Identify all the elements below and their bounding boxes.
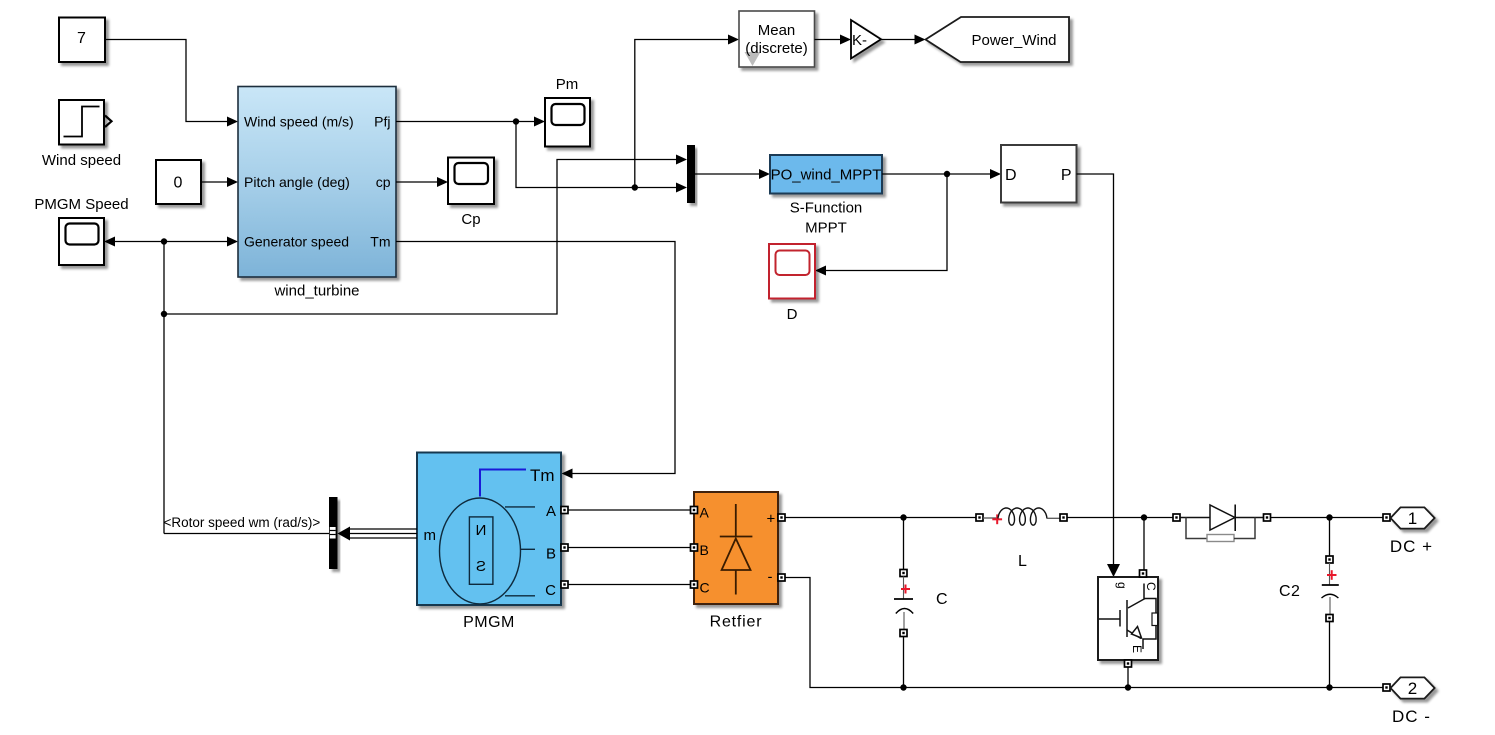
svg-text:Power_Wind: Power_Wind	[971, 32, 1056, 49]
wire 0 to Pitch angle input	[201, 181, 228, 183]
svg-text:Mean: Mean	[758, 22, 796, 39]
svg-text:Cp: Cp	[461, 211, 480, 228]
svg-text:-: -	[768, 569, 773, 586]
svg-text:C: C	[1144, 582, 1158, 591]
rectifier Retfier	[694, 492, 778, 604]
svg-text:S-Function: S-Function	[790, 200, 863, 217]
outport 1 DC+	[1391, 507, 1435, 528]
svg-text:C: C	[700, 580, 710, 596]
IGBT block	[1098, 577, 1158, 660]
port square DC+	[1383, 514, 1390, 521]
scope D (red)	[769, 244, 815, 299]
junction node IGBT collector	[1141, 514, 1147, 520]
diode D1	[1173, 514, 1180, 521]
svg-text:PMGM: PMGM	[463, 614, 515, 631]
svg-text:7: 7	[77, 30, 86, 47]
svg-text:+: +	[767, 511, 776, 528]
measurement bus (triple line)	[349, 529, 417, 538]
constant block 0	[156, 160, 201, 204]
scope Cp	[448, 158, 494, 205]
svg-text:PMGM Speed: PMGM Speed	[34, 196, 128, 213]
wire mux to S-Function	[695, 173, 760, 175]
wire rotor speed to feedback	[164, 533, 329, 535]
wire wm to Generator speed input	[164, 241, 228, 243]
svg-text:N: N	[476, 522, 487, 539]
outport 2 DC-	[1391, 677, 1435, 698]
svg-text:K-: K-	[852, 32, 867, 49]
Tm mechanical trace (blue)	[480, 470, 526, 497]
stator stubs	[505, 506, 535, 508]
junction Pfj node	[513, 118, 519, 124]
svg-text:C2: C2	[1279, 583, 1300, 600]
svg-text:PO_wind_MPPT: PO_wind_MPPT	[771, 167, 882, 184]
svg-text:g: g	[1115, 582, 1129, 589]
wire Mean to gain	[815, 39, 841, 41]
svg-text:MPPT: MPPT	[805, 220, 847, 237]
junction node C top	[900, 514, 906, 520]
svg-text:Pitch angle (deg): Pitch angle (deg)	[244, 174, 350, 190]
svg-text:D: D	[787, 306, 798, 323]
outport Power_Wind	[926, 17, 1070, 62]
svg-text:Wind speed (m/s): Wind speed (m/s)	[244, 114, 354, 130]
capacitor C2	[1329, 518, 1331, 557]
gain K-	[851, 20, 881, 59]
wire Tm to PMGM	[396, 242, 675, 474]
wire cp to Cp scope	[396, 181, 438, 183]
S-Function PO_wind_MPPT	[770, 155, 882, 194]
svg-text:(discrete): (discrete)	[745, 40, 808, 57]
port square DC-	[1383, 684, 1390, 691]
svg-text:2: 2	[1408, 679, 1417, 698]
svg-text:1: 1	[1408, 509, 1417, 528]
snubber RC	[1186, 518, 1207, 539]
wire 7 to Wind speed input	[105, 40, 228, 122]
wire S-Function to subsystem D	[882, 173, 991, 175]
svg-text:B: B	[700, 542, 709, 558]
svg-text:<Rotor speed wm (rad/s)>: <Rotor speed wm (rad/s)>	[164, 515, 321, 530]
port square PMGM B	[561, 544, 568, 551]
wire wm to mux input 1	[164, 160, 677, 315]
junction node C2 top	[1326, 514, 1332, 520]
svg-text:Pm: Pm	[556, 76, 579, 93]
wire phase B	[568, 547, 690, 549]
port square diode out	[1264, 514, 1271, 521]
sample-time icon	[745, 52, 761, 66]
DC+ rail segment 3	[1267, 517, 1383, 519]
wire Pfj to Pm scope	[396, 121, 535, 123]
junction wm branch to mux	[161, 311, 167, 317]
inductor L	[976, 514, 983, 521]
junction node C2 bottom	[1326, 684, 1332, 690]
svg-text:DC -: DC -	[1392, 707, 1431, 726]
port square IGBT C	[1140, 570, 1147, 577]
svg-text:D: D	[1005, 167, 1017, 184]
svg-text:wind_turbine: wind_turbine	[273, 283, 359, 300]
port square Retfier C	[691, 581, 698, 588]
svg-text:A: A	[700, 505, 710, 521]
subsystem wind_turbine	[238, 87, 396, 278]
DC+ rail segment 2	[1067, 517, 1173, 519]
svg-text:Tm: Tm	[370, 234, 390, 250]
svg-text:P: P	[1061, 167, 1072, 184]
svg-text:C: C	[936, 591, 948, 608]
wire P to IGBT gate	[1077, 174, 1114, 564]
step source Wind speed	[59, 100, 104, 145]
bus selector bar	[329, 497, 338, 569]
wire wm feedback vertical	[163, 242, 165, 534]
junction Pm branch to Mean	[632, 184, 638, 190]
port square IGBT E	[1125, 660, 1132, 667]
mux	[687, 145, 695, 203]
wire Pm to Mean block	[635, 40, 729, 188]
port square PMGM A	[561, 507, 568, 514]
port square Retfier A	[691, 507, 698, 514]
PMGM machine block	[417, 453, 561, 606]
wire emitter to rail	[1127, 667, 1129, 688]
svg-text:E: E	[1130, 645, 1144, 653]
wire phase C	[568, 584, 690, 586]
wire gain to Power_Wind	[881, 39, 915, 41]
svg-text:C: C	[545, 582, 556, 599]
motor ellipse	[440, 498, 521, 604]
svg-text:DC +: DC +	[1390, 537, 1433, 556]
svg-text:S: S	[476, 558, 486, 575]
svg-text:Generator speed: Generator speed	[244, 234, 349, 250]
svg-text:cp: cp	[376, 174, 391, 190]
svg-text:m: m	[424, 527, 437, 544]
wire collector drop	[1143, 518, 1145, 571]
svg-text:Pfj: Pfj	[374, 114, 390, 130]
wire duty-cycle to scope D	[826, 174, 948, 271]
wire Pm to mux input 2	[516, 122, 677, 188]
svg-text:Retfier: Retfier	[710, 614, 763, 631]
junction node IGBT E bottom	[1125, 684, 1131, 690]
port square Retfier minus	[778, 574, 785, 581]
magnet rect	[469, 517, 493, 584]
port square Retfier B	[691, 544, 698, 551]
svg-text:B: B	[546, 546, 556, 563]
junction wm node	[161, 238, 167, 244]
svg-text:Tm: Tm	[530, 466, 555, 485]
port square PMGM C	[561, 581, 568, 588]
port square Retfier plus	[778, 514, 785, 521]
subsystem D to P	[1001, 145, 1077, 203]
wire wm to PMGM Speed scope	[104, 237, 115, 247]
capacitor C	[903, 518, 905, 570]
svg-text:0: 0	[174, 175, 183, 192]
wire Retfier minus to bottom rail	[785, 578, 1383, 688]
svg-text:Wind speed: Wind speed	[42, 152, 121, 169]
junction duty-cycle node	[944, 171, 950, 177]
svg-text:A: A	[546, 503, 556, 520]
Mean (discrete) block	[739, 11, 815, 67]
wire phase A	[568, 509, 690, 511]
constant block 7	[59, 18, 105, 63]
DC+ rail segment 1	[785, 517, 976, 519]
junction node C bottom	[900, 684, 906, 690]
svg-text:L: L	[1018, 553, 1027, 570]
